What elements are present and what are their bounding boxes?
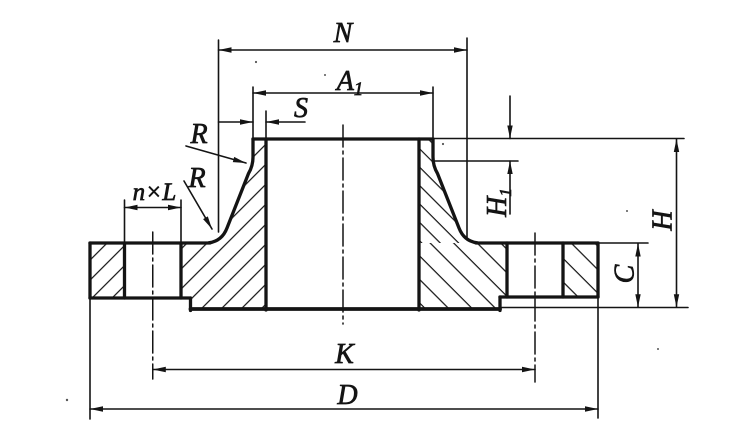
arrow D left bbox=[90, 406, 103, 411]
step left bbox=[189, 298, 192, 311]
arrow H1 down bbox=[507, 126, 512, 139]
ext A1 left bbox=[252, 87, 254, 139]
ext nxL left bbox=[124, 200, 126, 243]
arrow A1 right bbox=[420, 90, 433, 95]
bolt hole right, right edge bbox=[561, 243, 564, 297]
right bolt hole centerline bbox=[534, 233, 536, 382]
bolt hole left, right edge bbox=[179, 243, 182, 298]
dim H vertical bbox=[676, 139, 678, 307]
hatch fill: left hub and neck wall bbox=[181, 139, 266, 311]
flange top left bbox=[90, 241, 210, 244]
arrow nxL right bbox=[168, 205, 181, 210]
dim H1 vertical bottom bbox=[509, 161, 511, 214]
svg-text:S: S bbox=[294, 93, 308, 124]
arrow H up bbox=[674, 139, 679, 152]
dim N line bbox=[219, 49, 468, 51]
arrow R1 bbox=[233, 157, 246, 163]
part outline, thick lines bbox=[90, 139, 598, 311]
dim K line bbox=[153, 369, 535, 371]
flange left edge bbox=[88, 243, 91, 298]
bore left wall bbox=[264, 139, 267, 310]
step right bbox=[498, 297, 501, 311]
ext N right bbox=[466, 38, 468, 240]
arrow S left bbox=[240, 119, 253, 124]
bolt hole right, left edge bbox=[505, 243, 508, 297]
arrow H1 up bbox=[507, 161, 512, 174]
svg-text:C: C bbox=[610, 264, 641, 283]
neck outer wall left (taper + fillets) bbox=[209, 139, 253, 243]
dim S right segment bbox=[266, 121, 305, 123]
arrow A1 left bbox=[253, 90, 266, 95]
hatch fill: right outer ring bbox=[563, 243, 598, 297]
flange right edge bbox=[596, 243, 599, 297]
svg-text:D: D bbox=[336, 380, 357, 411]
arrow K right bbox=[522, 367, 535, 372]
arrow K left bbox=[153, 367, 166, 372]
dim D line bbox=[90, 408, 598, 410]
dim C vertical bbox=[637, 244, 639, 308]
arrow N left bbox=[219, 47, 232, 52]
svg-text:n×L: n×L bbox=[133, 179, 177, 206]
arrow D right bbox=[585, 406, 598, 411]
centerlines dash-dot bbox=[153, 125, 535, 382]
arrow H down bbox=[674, 294, 679, 307]
ext N left bbox=[218, 40, 220, 232]
hatch fill: right neck wall bbox=[419, 139, 477, 243]
leader R1 bbox=[186, 146, 246, 163]
H1 level line bbox=[434, 160, 518, 162]
left bolt hole centerline bbox=[152, 232, 154, 379]
svg-text:N: N bbox=[333, 18, 354, 49]
svg-text:R: R bbox=[189, 119, 207, 150]
arrow N right bbox=[454, 47, 467, 52]
bolt hole left, left edge bbox=[123, 243, 126, 298]
flange ring bottom right bbox=[500, 295, 598, 298]
ext neck top to right bbox=[433, 138, 684, 140]
arrowheads bbox=[90, 47, 679, 411]
dim H1 vertical top bbox=[509, 96, 511, 139]
neck outer wall right (taper + fillets) bbox=[433, 139, 477, 243]
raised face bottom bbox=[191, 307, 501, 311]
flange top right bbox=[476, 241, 598, 244]
hatch fill: right hub bbox=[419, 243, 507, 311]
svg-text:H: H bbox=[648, 209, 679, 232]
ext bottom right bbox=[500, 307, 688, 309]
arrow C up bbox=[635, 244, 640, 257]
svg-text:K: K bbox=[334, 339, 355, 370]
arrow S right bbox=[266, 119, 279, 124]
arrow nxL left bbox=[125, 205, 138, 210]
bore right wall bbox=[417, 139, 420, 310]
ext D left bbox=[89, 298, 91, 419]
dimension and extension lines, thin bbox=[90, 38, 688, 419]
ext nxL right bbox=[180, 200, 182, 243]
ext D right bbox=[597, 297, 599, 418]
svg-text:R: R bbox=[187, 163, 205, 194]
ext flange top right bbox=[598, 242, 648, 244]
flange ring bottom left bbox=[90, 296, 191, 299]
arrow R2 bbox=[203, 216, 212, 229]
main centerline bbox=[342, 125, 344, 324]
leader R2 bbox=[184, 181, 212, 229]
hatch fill: left outer ring bbox=[90, 243, 125, 298]
ext A1 right bbox=[432, 87, 434, 139]
dim S left segment bbox=[219, 121, 254, 123]
arrow C down bbox=[635, 294, 640, 307]
scan specks bbox=[66, 61, 659, 401]
dim nxL line bbox=[125, 207, 182, 209]
neck top face bbox=[253, 137, 433, 140]
dim A1 line bbox=[253, 92, 433, 94]
ext S bore bbox=[265, 111, 267, 139]
